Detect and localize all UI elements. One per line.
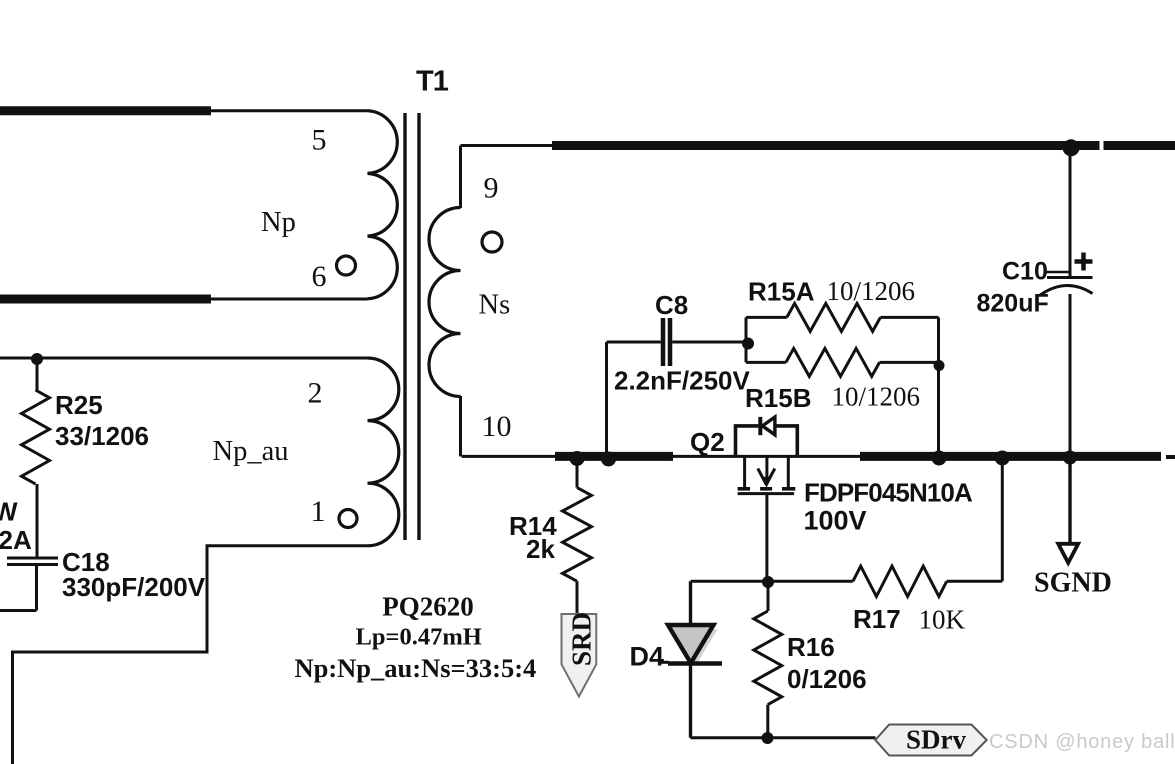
svg-text:9: 9 xyxy=(484,172,499,205)
svg-text:6: 6 xyxy=(312,260,327,293)
svg-text:Ns: Ns xyxy=(479,290,511,321)
svg-text:Np:Np_au:Ns=33:5:4: Np:Np_au:Ns=33:5:4 xyxy=(294,653,536,683)
svg-text:SRD: SRD xyxy=(567,612,597,666)
svg-text:Np: Np xyxy=(261,207,296,238)
svg-text:SGND: SGND xyxy=(1034,568,1112,599)
svg-text:0/1206: 0/1206 xyxy=(787,664,867,694)
svg-text:100V: 100V xyxy=(804,506,867,536)
svg-text:1: 1 xyxy=(311,495,326,528)
svg-text:Np_au: Np_au xyxy=(213,436,289,467)
svg-text:FDPF045N10A: FDPF045N10A xyxy=(804,478,973,508)
svg-text:820uF: 820uF xyxy=(977,290,1049,318)
svg-text:Q2: Q2 xyxy=(690,427,725,457)
svg-text:10/1206: 10/1206 xyxy=(827,276,916,306)
svg-text:5: 5 xyxy=(312,124,327,157)
svg-text:Lp=0.47mH: Lp=0.47mH xyxy=(356,624,482,651)
svg-text:33/1206: 33/1206 xyxy=(55,421,149,451)
svg-text:C8: C8 xyxy=(655,290,688,320)
svg-text:SDrv: SDrv xyxy=(906,725,966,755)
svg-text:R15A: R15A xyxy=(748,277,815,307)
svg-text:10K: 10K xyxy=(919,605,966,635)
svg-text:C10: C10 xyxy=(1002,258,1048,286)
svg-text:R17: R17 xyxy=(853,604,901,634)
svg-text:T1: T1 xyxy=(416,66,449,98)
svg-text:R16: R16 xyxy=(787,632,835,662)
svg-text:2A: 2A xyxy=(0,525,32,555)
svg-text:W: W xyxy=(0,497,18,527)
svg-text:10/1206: 10/1206 xyxy=(832,382,921,412)
svg-text:CSDN @honey ball: CSDN @honey ball xyxy=(989,731,1175,753)
svg-text:2k: 2k xyxy=(526,534,555,564)
svg-text:R25: R25 xyxy=(55,390,103,420)
svg-text:2.2nF/250V: 2.2nF/250V xyxy=(614,366,751,396)
svg-text:10: 10 xyxy=(482,410,512,443)
svg-text:R15B: R15B xyxy=(745,383,811,413)
svg-text:2: 2 xyxy=(308,377,323,410)
svg-text:330pF/200V: 330pF/200V xyxy=(62,572,206,602)
svg-text:D4: D4 xyxy=(630,642,665,672)
svg-text:PQ2620: PQ2620 xyxy=(382,592,474,622)
